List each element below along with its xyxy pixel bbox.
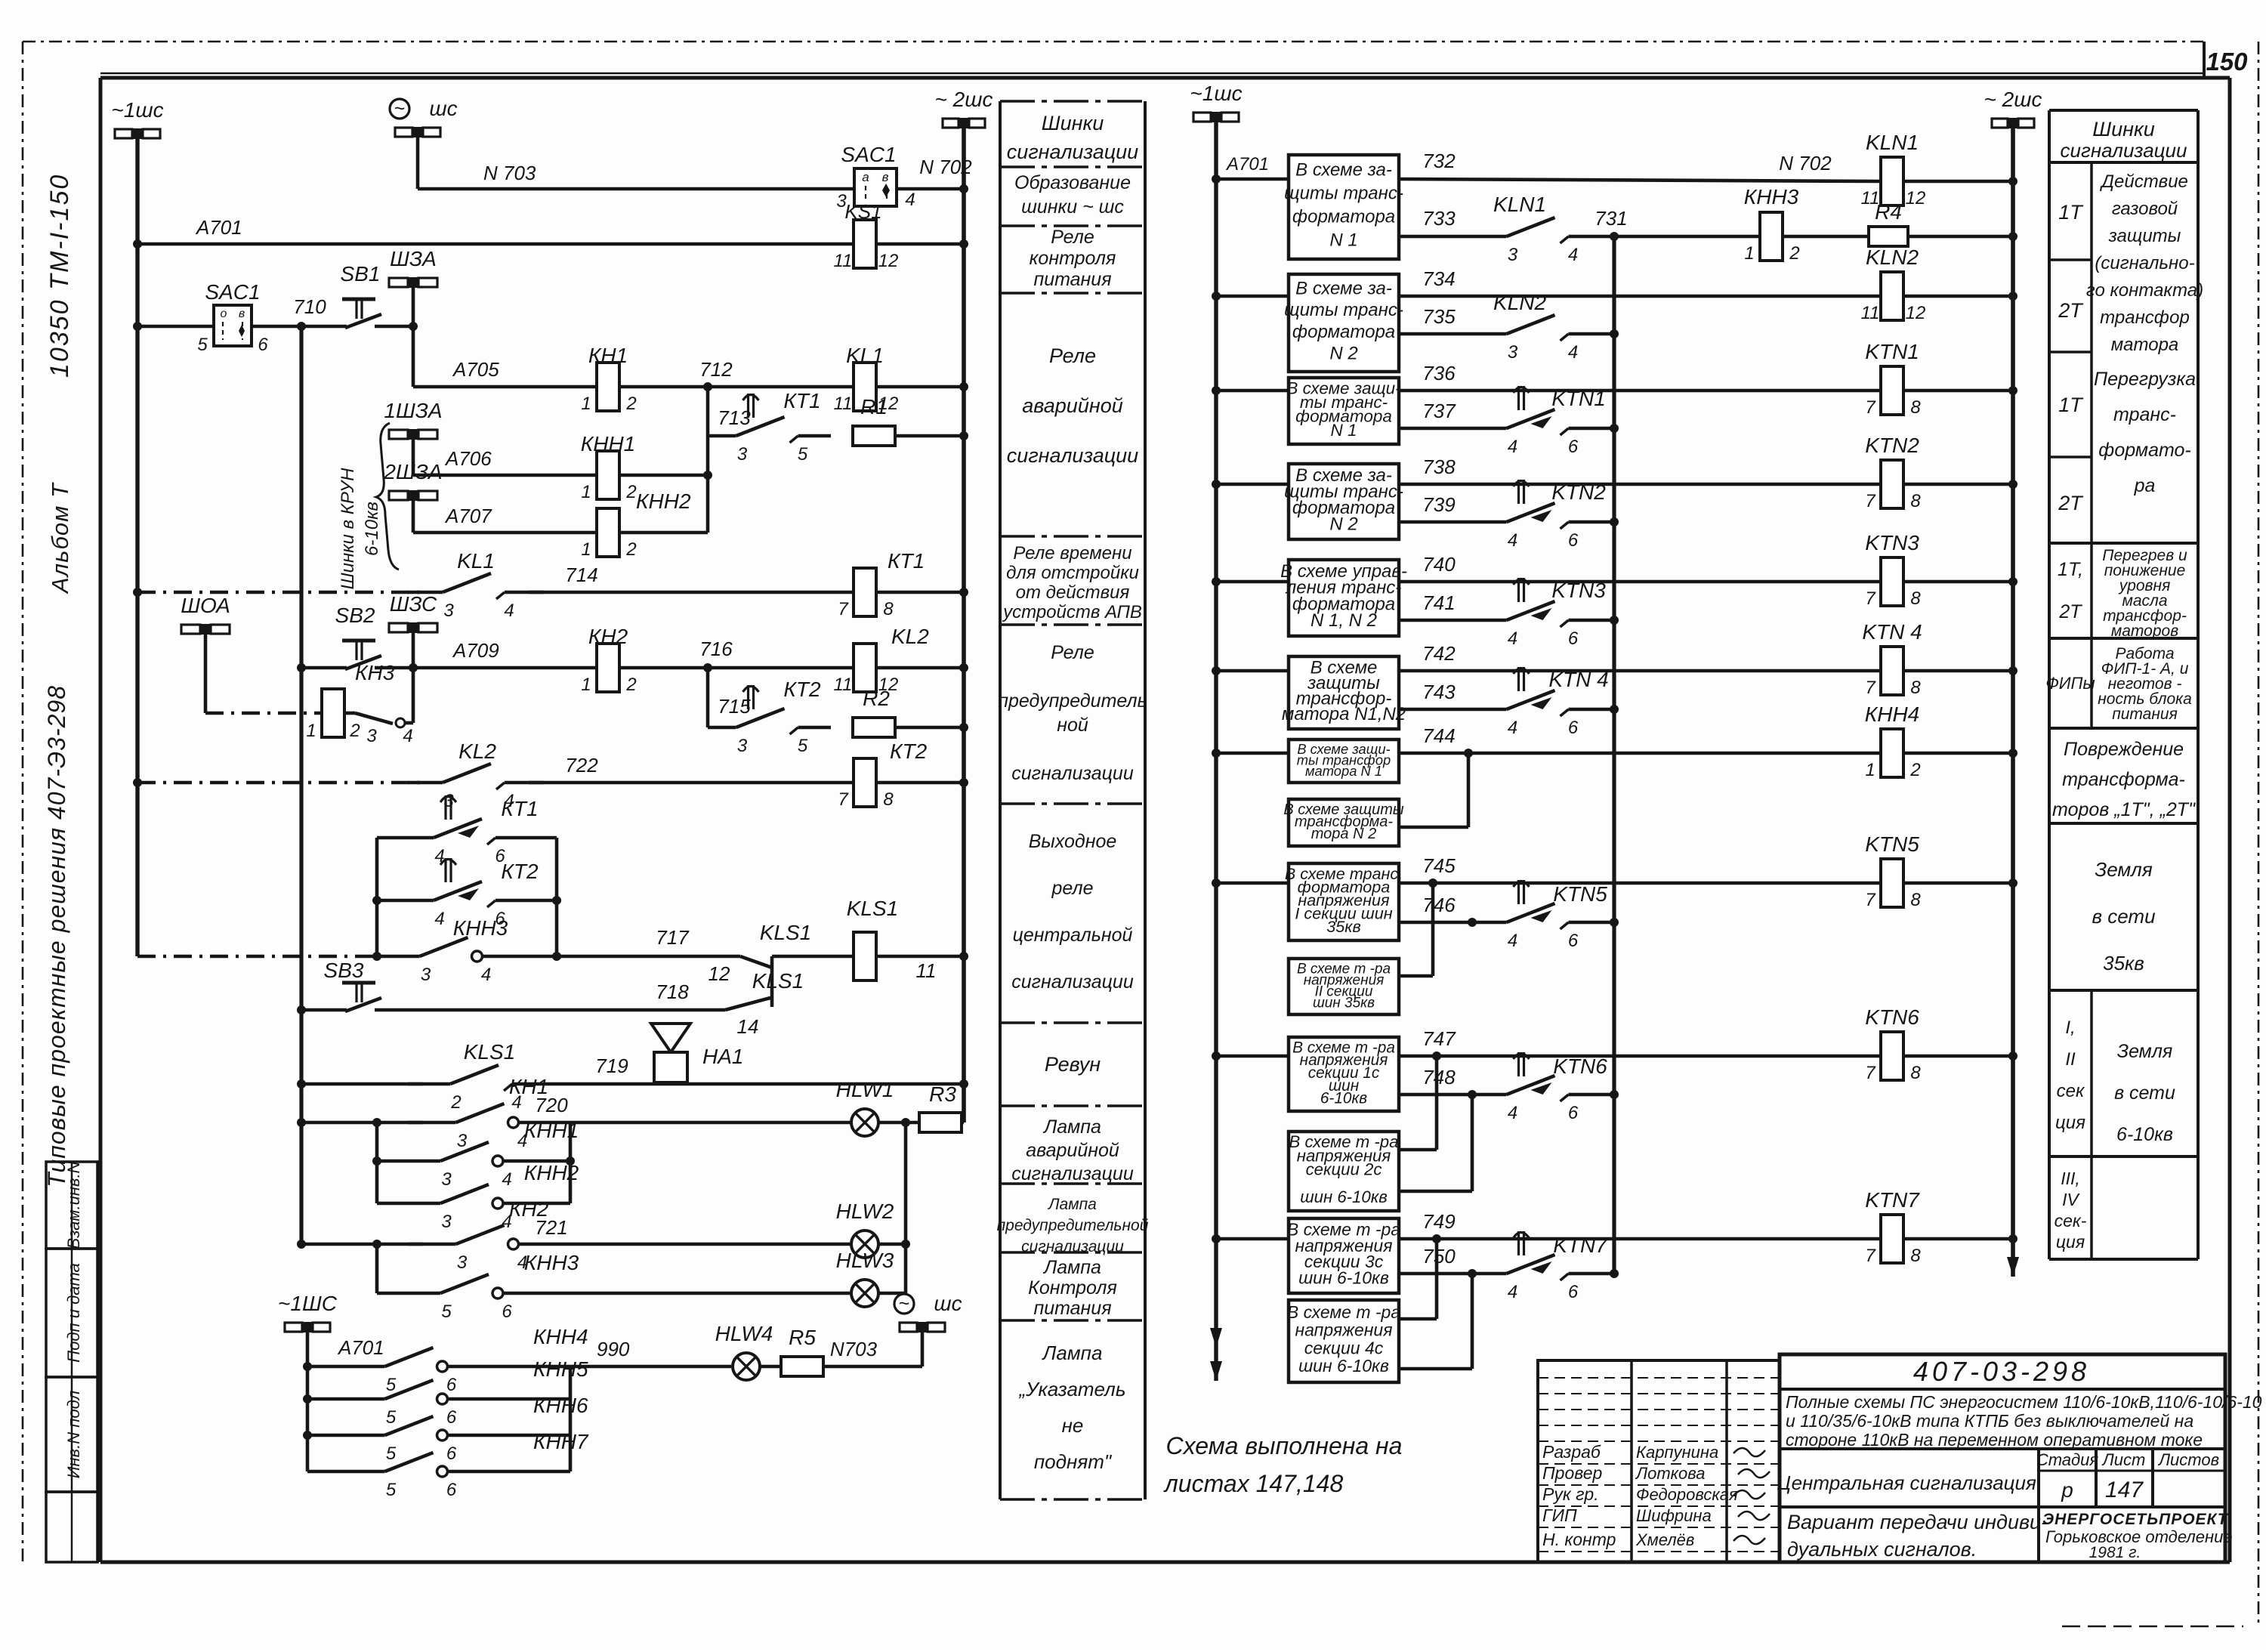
svg-text:2: 2 xyxy=(625,394,636,414)
svg-text:6: 6 xyxy=(1568,628,1579,649)
svg-text:716: 716 xyxy=(699,638,733,660)
svg-text:Рук гр.: Рук гр. xyxy=(1542,1484,1599,1504)
svg-text:питания: питания xyxy=(1033,1298,1111,1319)
svg-text:Шинки: Шинки xyxy=(1042,112,1104,134)
svg-text:3: 3 xyxy=(457,1131,468,1151)
svg-text:4: 4 xyxy=(1568,342,1578,363)
svg-text:сигнализации: сигнализации xyxy=(2061,139,2187,162)
svg-text:R5: R5 xyxy=(789,1326,816,1349)
svg-text:4: 4 xyxy=(1508,530,1517,551)
svg-text:форматора: форматора xyxy=(1292,207,1395,227)
svg-text:6: 6 xyxy=(1568,718,1579,738)
svg-text:1: 1 xyxy=(306,721,316,741)
svg-text:ра: ра xyxy=(2134,475,2156,496)
svg-text:о: о xyxy=(221,307,227,320)
svg-text:ШЗС: ШЗС xyxy=(390,592,437,616)
svg-text:3: 3 xyxy=(457,1252,468,1273)
svg-text:КНН2: КНН2 xyxy=(636,489,691,513)
svg-text:го контакта): го контакта) xyxy=(2086,280,2203,301)
svg-text:Взам.инв.N: Взам.инв.N xyxy=(64,1161,83,1249)
svg-text:Лист: Лист xyxy=(2101,1450,2146,1469)
svg-text:746: 746 xyxy=(1422,894,1456,916)
svg-text:1ШЗА: 1ШЗА xyxy=(384,399,442,422)
svg-text:734: 734 xyxy=(1422,267,1455,290)
svg-text:контроля: контроля xyxy=(1030,248,1116,269)
svg-text:3: 3 xyxy=(421,965,431,985)
svg-text:2: 2 xyxy=(450,1092,461,1113)
svg-text:N703: N703 xyxy=(830,1338,878,1360)
svg-text:сигнализации: сигнализации xyxy=(1007,140,1138,163)
svg-text:маторов: маторов xyxy=(2111,622,2178,640)
svg-text:6: 6 xyxy=(446,1407,457,1428)
svg-text:КНН3: КНН3 xyxy=(1744,185,1799,208)
svg-text:в: в xyxy=(882,170,889,184)
svg-text:739: 739 xyxy=(1422,493,1455,516)
svg-text:N 702: N 702 xyxy=(919,156,972,178)
svg-text:Повреждение: Повреждение xyxy=(2064,739,2184,760)
svg-text:сигнализации: сигнализации xyxy=(1007,444,1138,467)
svg-text:Шинки в КРУН: Шинки в КРУН xyxy=(338,468,358,590)
svg-text:5: 5 xyxy=(386,1480,397,1500)
svg-text:сигнализации: сигнализации xyxy=(1011,971,1134,993)
svg-text:Земля: Земля xyxy=(2117,1041,2173,1062)
svg-text:KLN1: KLN1 xyxy=(1866,131,1919,154)
svg-text:2Т: 2Т xyxy=(2058,299,2084,322)
svg-text:1: 1 xyxy=(1865,760,1875,780)
svg-text:Схема выполнена на: Схема выполнена на xyxy=(1166,1432,1403,1459)
svg-text:~1шс: ~1шс xyxy=(1190,82,1242,105)
svg-text:ЭНЕРГОСЕТЬПРОЕКТ: ЭНЕРГОСЕТЬПРОЕКТ xyxy=(2042,1511,2229,1528)
svg-text:2: 2 xyxy=(1909,760,1920,780)
svg-text:сигнализации: сигнализации xyxy=(1011,763,1134,784)
svg-text:Ревун: Ревун xyxy=(1045,1053,1101,1076)
svg-text:В схеме за-: В схеме за- xyxy=(1295,160,1392,181)
svg-text:Лампа: Лампа xyxy=(1047,1196,1097,1213)
svg-text:731: 731 xyxy=(1595,207,1627,230)
svg-text:721: 721 xyxy=(535,1216,567,1239)
svg-text:КНН7: КНН7 xyxy=(533,1430,589,1453)
svg-text:~1ШС: ~1ШС xyxy=(278,1292,338,1315)
svg-text:и 110/35/6-10кВ типа КТПБ без: и 110/35/6-10кВ типа КТПБ без выключател… xyxy=(1786,1411,2193,1431)
svg-text:712: 712 xyxy=(699,358,733,381)
svg-text:R3: R3 xyxy=(929,1082,956,1106)
svg-text:КТ2: КТ2 xyxy=(501,860,539,883)
svg-text:тора N 2: тора N 2 xyxy=(1311,826,1376,842)
svg-text:KLN2: KLN2 xyxy=(1493,291,1546,314)
svg-text:предупредитель: предупредитель xyxy=(998,690,1147,712)
svg-text:2Т: 2Т xyxy=(2058,492,2084,514)
svg-text:749: 749 xyxy=(1422,1210,1455,1233)
svg-text:747: 747 xyxy=(1422,1027,1456,1050)
svg-text:Реле: Реле xyxy=(1051,642,1094,663)
svg-text:KTN6: KTN6 xyxy=(1553,1055,1607,1078)
svg-text:735: 735 xyxy=(1422,305,1456,328)
svg-text:секции 4с: секции 4с xyxy=(1304,1338,1384,1357)
svg-text:КНН3: КНН3 xyxy=(453,916,508,940)
svg-text:ной: ной xyxy=(1057,715,1088,736)
svg-text:3: 3 xyxy=(1508,245,1518,265)
svg-text:защиты: защиты xyxy=(2108,226,2181,246)
svg-text:N 2: N 2 xyxy=(1329,344,1357,364)
svg-text:~ 2шс: ~ 2шс xyxy=(1984,88,2042,111)
svg-text:KL1: KL1 xyxy=(846,344,884,367)
svg-text:N 2: N 2 xyxy=(1329,514,1357,534)
svg-text:742: 742 xyxy=(1422,642,1456,665)
svg-text:Центральная сигнализация: Центральная сигнализация xyxy=(1777,1471,2036,1494)
svg-text:питания: питания xyxy=(2112,706,2178,723)
svg-text:733: 733 xyxy=(1422,207,1456,230)
svg-text:дуальных сигналов.: дуальных сигналов. xyxy=(1787,1538,1977,1561)
svg-text:Выходное: Выходное xyxy=(1029,831,1117,852)
svg-text:сек: сек xyxy=(2057,1081,2085,1101)
svg-text:2: 2 xyxy=(1789,243,1799,264)
svg-text:шс: шс xyxy=(934,1292,962,1315)
svg-text:транс-: транс- xyxy=(2113,404,2176,425)
svg-text:KLS1: KLS1 xyxy=(760,921,812,944)
svg-text:КНН1: КНН1 xyxy=(581,432,636,455)
svg-text:R1: R1 xyxy=(860,395,888,418)
svg-text:щиты транс-: щиты транс- xyxy=(1284,300,1403,320)
svg-text:Контроля: Контроля xyxy=(1028,1277,1117,1298)
svg-text:ШОА: ШОА xyxy=(181,594,230,617)
svg-text:KTN1: KTN1 xyxy=(1551,387,1606,410)
svg-text:N 1: N 1 xyxy=(1330,421,1357,440)
svg-text:от действия: от действия xyxy=(1016,582,1130,603)
svg-text:I,: I, xyxy=(2065,1017,2075,1038)
svg-text:4: 4 xyxy=(403,726,412,746)
svg-text:4: 4 xyxy=(1508,1282,1517,1302)
svg-text:35кв: 35кв xyxy=(2103,952,2144,974)
svg-text:14: 14 xyxy=(737,1015,759,1038)
svg-text:718: 718 xyxy=(656,980,689,1003)
svg-text:3: 3 xyxy=(737,444,748,465)
svg-text:736: 736 xyxy=(1422,362,1456,384)
svg-text:5: 5 xyxy=(386,1444,397,1464)
svg-text:1Т: 1Т xyxy=(2058,394,2084,416)
svg-text:8: 8 xyxy=(1910,588,1921,609)
svg-text:Подп и дата: Подп и дата xyxy=(64,1263,83,1363)
svg-text:6: 6 xyxy=(502,1302,512,1322)
svg-text:6: 6 xyxy=(446,1375,457,1395)
svg-text:Н. контр: Н. контр xyxy=(1542,1530,1616,1549)
svg-text:35кв: 35кв xyxy=(1326,917,1361,936)
svg-text:6: 6 xyxy=(1568,931,1579,951)
svg-text:шин 6-10кв: шин 6-10кв xyxy=(1298,1268,1389,1287)
svg-text:7: 7 xyxy=(1865,678,1876,698)
svg-text:7: 7 xyxy=(838,599,849,619)
svg-text:Шинки: Шинки xyxy=(2092,118,2155,140)
svg-text:форматора: форматора xyxy=(1292,322,1395,342)
svg-text:КТ1: КТ1 xyxy=(501,797,538,820)
svg-text:Стадия: Стадия xyxy=(2036,1450,2099,1469)
svg-text:Перегрузка: Перегрузка xyxy=(2094,369,2196,390)
svg-text:8: 8 xyxy=(883,599,894,619)
svg-text:1Т,: 1Т, xyxy=(2058,559,2083,580)
svg-text:6-10кв: 6-10кв xyxy=(2116,1124,2173,1145)
svg-text:7: 7 xyxy=(1865,491,1876,511)
svg-text:матора: матора xyxy=(2111,335,2179,355)
svg-text:12: 12 xyxy=(1906,188,1926,208)
svg-text:Образование: Образование xyxy=(1014,172,1131,193)
svg-text:8: 8 xyxy=(1910,1063,1921,1083)
svg-text:2: 2 xyxy=(625,482,636,502)
svg-text:4: 4 xyxy=(504,601,514,621)
svg-text:трансфор: трансфор xyxy=(2100,307,2190,328)
svg-text:листах 147,148: листах 147,148 xyxy=(1163,1470,1344,1497)
svg-text:Реле: Реле xyxy=(1049,344,1096,367)
svg-text:4: 4 xyxy=(1508,437,1517,457)
svg-text:А707: А707 xyxy=(444,505,492,527)
svg-text:2ШЗА: 2ШЗА xyxy=(383,460,442,483)
svg-text:KTN1: KTN1 xyxy=(1865,340,1919,363)
svg-text:6: 6 xyxy=(258,335,268,355)
svg-text:1Т: 1Т xyxy=(2058,201,2084,224)
svg-text:Провер: Провер xyxy=(1542,1463,1603,1483)
svg-text:предупредительной: предупредительной xyxy=(997,1217,1149,1234)
svg-text:КНН1: КНН1 xyxy=(524,1119,579,1142)
svg-text:KTN2: KTN2 xyxy=(1551,480,1606,504)
svg-text:Лампа: Лампа xyxy=(1042,1342,1103,1364)
svg-text:KTN5: KTN5 xyxy=(1553,882,1607,906)
svg-text:Типовые проектные решения: Типовые проектные решения 407-Э3-298 xyxy=(43,685,70,1187)
svg-text:8: 8 xyxy=(1910,491,1921,511)
svg-text:KTN3: KTN3 xyxy=(1865,531,1919,554)
svg-text:НА1: НА1 xyxy=(702,1045,743,1068)
svg-text:формато-: формато- xyxy=(2098,440,2191,461)
svg-text:6: 6 xyxy=(446,1444,457,1464)
svg-text:ГИП: ГИП xyxy=(1542,1505,1577,1525)
svg-text:750: 750 xyxy=(1422,1245,1456,1268)
svg-text:ФИПы: ФИПы xyxy=(2045,674,2095,693)
svg-text:Альбом Т: Альбом Т xyxy=(47,482,73,594)
svg-text:8: 8 xyxy=(883,789,894,810)
svg-text:744: 744 xyxy=(1422,724,1455,747)
svg-text:шин 6-10кв: шин 6-10кв xyxy=(1300,1187,1388,1206)
svg-text:А701: А701 xyxy=(1225,154,1269,174)
svg-text:4: 4 xyxy=(1508,1103,1517,1123)
svg-text:КНН6: КНН6 xyxy=(533,1394,588,1417)
svg-text:ция: ция xyxy=(2055,1113,2085,1133)
svg-text:5: 5 xyxy=(386,1407,397,1428)
svg-text:II: II xyxy=(2065,1049,2076,1070)
svg-text:7: 7 xyxy=(1865,397,1876,418)
svg-text:Лампа: Лампа xyxy=(1042,1116,1101,1138)
svg-text:1: 1 xyxy=(581,482,591,502)
svg-text:KTN 4: KTN 4 xyxy=(1862,620,1922,644)
svg-text:КНН5: КНН5 xyxy=(533,1357,588,1381)
svg-text:11: 11 xyxy=(916,959,937,982)
svg-text:11: 11 xyxy=(834,675,853,695)
svg-text:в сети: в сети xyxy=(2092,905,2155,928)
svg-text:4: 4 xyxy=(434,909,444,929)
svg-text:4: 4 xyxy=(1508,931,1517,951)
svg-text:КТ2: КТ2 xyxy=(890,740,928,763)
svg-text:12: 12 xyxy=(1906,303,1926,323)
svg-text:КНН4: КНН4 xyxy=(1865,702,1920,726)
svg-text:737: 737 xyxy=(1422,400,1456,422)
svg-text:сигнализации: сигнализации xyxy=(1021,1238,1124,1255)
svg-text:Реле времени: Реле времени xyxy=(1013,543,1131,564)
svg-text:6: 6 xyxy=(1568,1103,1579,1123)
svg-text:КН3: КН3 xyxy=(355,661,395,684)
svg-text:7: 7 xyxy=(1865,890,1876,910)
svg-text:8: 8 xyxy=(1910,890,1921,910)
svg-text:а: а xyxy=(862,170,869,184)
svg-text:KTN3: KTN3 xyxy=(1551,579,1606,602)
svg-text:6: 6 xyxy=(446,1480,457,1500)
svg-text:в сети: в сети xyxy=(2114,1082,2175,1104)
svg-text:KLN1: KLN1 xyxy=(1493,193,1546,216)
svg-text:8: 8 xyxy=(1910,678,1921,698)
svg-text:питания: питания xyxy=(1033,269,1111,290)
svg-text:990: 990 xyxy=(597,1338,630,1360)
svg-text:3: 3 xyxy=(443,601,454,621)
svg-text:секции 2с: секции 2с xyxy=(1306,1160,1382,1179)
svg-text:2Т: 2Т xyxy=(2058,601,2082,622)
svg-text:3: 3 xyxy=(366,726,377,746)
svg-text:6-10кв: 6-10кв xyxy=(362,502,382,556)
svg-text:4: 4 xyxy=(502,1169,511,1190)
svg-text:(сигнально-: (сигнально- xyxy=(2095,253,2194,273)
svg-text:741: 741 xyxy=(1422,591,1455,614)
svg-text:6: 6 xyxy=(1568,530,1579,551)
svg-text:КТ1: КТ1 xyxy=(888,549,925,573)
svg-text:7: 7 xyxy=(838,789,849,810)
svg-text:в: в xyxy=(239,307,245,320)
svg-text:1: 1 xyxy=(581,675,591,695)
svg-text:KLS1: KLS1 xyxy=(752,969,804,993)
svg-text:4: 4 xyxy=(905,190,915,210)
svg-text:4: 4 xyxy=(1508,628,1517,649)
svg-text:407-03-298: 407-03-298 xyxy=(1913,1356,2090,1387)
svg-text:КНН3: КНН3 xyxy=(524,1251,579,1274)
svg-text:аварийной: аварийной xyxy=(1026,1140,1119,1161)
svg-text:745: 745 xyxy=(1422,854,1456,877)
svg-text:4: 4 xyxy=(1568,245,1578,265)
svg-text:717: 717 xyxy=(656,926,690,949)
svg-text:В схеме за-: В схеме за- xyxy=(1295,278,1392,298)
svg-text:напряжения: напряжения xyxy=(1295,1320,1392,1340)
svg-text:поднят": поднят" xyxy=(1034,1450,1113,1473)
svg-text:SB2: SB2 xyxy=(335,604,375,627)
svg-text:720: 720 xyxy=(535,1094,568,1116)
svg-text:Лампа: Лампа xyxy=(1042,1257,1101,1278)
svg-text:4: 4 xyxy=(434,846,444,866)
svg-text:6: 6 xyxy=(1568,437,1579,457)
svg-text:2: 2 xyxy=(625,675,636,695)
svg-text:шин 6-10кв: шин 6-10кв xyxy=(1298,1356,1389,1376)
svg-text:150: 150 xyxy=(2206,48,2248,76)
svg-text:шин 35кв: шин 35кв xyxy=(1313,996,1375,1011)
svg-text:11: 11 xyxy=(834,251,853,271)
svg-text:3: 3 xyxy=(737,736,748,756)
svg-text:сек-: сек- xyxy=(2055,1211,2087,1231)
svg-text:738: 738 xyxy=(1422,455,1456,478)
svg-text:матора N 1: матора N 1 xyxy=(1305,763,1382,779)
svg-text:5: 5 xyxy=(441,1302,452,1322)
svg-text:шс: шс xyxy=(429,97,457,120)
svg-text:Земля: Земля xyxy=(2095,858,2153,881)
svg-text:центральной: центральной xyxy=(1013,925,1133,946)
svg-text:732: 732 xyxy=(1422,150,1456,172)
svg-text:Инв.N подл: Инв.N подл xyxy=(64,1391,83,1478)
svg-text:719: 719 xyxy=(595,1055,628,1077)
svg-text:реле: реле xyxy=(1051,878,1094,899)
svg-text:N 1: N 1 xyxy=(1329,230,1357,251)
svg-text:1981 г.: 1981 г. xyxy=(2089,1544,2141,1561)
svg-text:KTN7: KTN7 xyxy=(1865,1188,1920,1212)
svg-text:HLW1: HLW1 xyxy=(836,1078,894,1101)
svg-text:KTN5: KTN5 xyxy=(1865,832,1919,856)
svg-text:KL2: KL2 xyxy=(891,625,929,648)
svg-text:А709: А709 xyxy=(452,639,499,662)
svg-text:7: 7 xyxy=(1865,1063,1876,1083)
svg-text:Реле: Реле xyxy=(1051,227,1094,248)
svg-text:А706: А706 xyxy=(444,447,492,470)
svg-text:11: 11 xyxy=(1861,303,1880,323)
svg-text:12: 12 xyxy=(709,962,730,985)
svg-text:Вариант передачи индиви-: Вариант передачи индиви- xyxy=(1787,1511,2048,1533)
svg-text:7: 7 xyxy=(1865,1246,1876,1266)
svg-text:торов „1Т", „2Т": торов „1Т", „2Т" xyxy=(2052,799,2196,820)
svg-text:Разраб: Разраб xyxy=(1542,1442,1601,1462)
svg-text:А705: А705 xyxy=(452,358,499,381)
svg-text:щиты транс-: щиты транс- xyxy=(1284,184,1403,204)
svg-text:КН2: КН2 xyxy=(588,625,628,648)
svg-text:KLS1: KLS1 xyxy=(464,1040,516,1064)
svg-text:~: ~ xyxy=(394,98,406,119)
svg-text:ция: ция xyxy=(2056,1232,2085,1252)
svg-text:HLW4: HLW4 xyxy=(715,1322,773,1345)
svg-text:7: 7 xyxy=(1865,588,1876,609)
svg-text:ШЗА: ШЗА xyxy=(390,247,437,270)
svg-text:Полные схемы ПС энергосистем 1: Полные схемы ПС энергосистем 110/6-10кВ,… xyxy=(1786,1392,2262,1412)
svg-text:147: 147 xyxy=(2105,1478,2144,1502)
svg-text:1: 1 xyxy=(1744,243,1754,264)
svg-text:KL1: KL1 xyxy=(457,549,495,573)
svg-text:Листов: Листов xyxy=(2157,1450,2219,1469)
svg-text:KLS1: KLS1 xyxy=(847,897,899,920)
svg-text:KLN2: KLN2 xyxy=(1866,245,1919,269)
svg-text:сигнализации: сигнализации xyxy=(1011,1163,1134,1184)
svg-text:~: ~ xyxy=(899,1293,910,1314)
svg-text:КНН4: КНН4 xyxy=(533,1325,588,1348)
svg-text:11: 11 xyxy=(834,394,853,414)
svg-text:SB3: SB3 xyxy=(324,959,364,982)
svg-text:HLW2: HLW2 xyxy=(836,1200,894,1223)
svg-text:2: 2 xyxy=(349,721,360,741)
svg-text:трансформа-: трансформа- xyxy=(2062,769,2185,790)
svg-text:10350 ТМ-I-150: 10350 ТМ-I-150 xyxy=(45,174,74,378)
svg-text:Карпунина: Карпунина xyxy=(1636,1443,1718,1462)
svg-text:3: 3 xyxy=(441,1169,452,1190)
svg-text:SAC1: SAC1 xyxy=(841,143,896,166)
svg-text:1: 1 xyxy=(581,539,591,560)
svg-text:„Указатель: „Указатель xyxy=(1019,1378,1126,1400)
svg-text:КТ1: КТ1 xyxy=(783,389,820,412)
svg-text:А701: А701 xyxy=(195,216,242,239)
svg-text:шинки ~ шс: шинки ~ шс xyxy=(1021,196,1124,218)
svg-text:722: 722 xyxy=(565,754,598,777)
svg-text:4: 4 xyxy=(1508,718,1517,738)
svg-text:~ 2шс: ~ 2шс xyxy=(935,88,993,111)
svg-text:4: 4 xyxy=(481,965,491,985)
svg-text:III,: III, xyxy=(2061,1169,2080,1188)
svg-text:для отстройки: для отстройки xyxy=(1006,563,1139,583)
svg-text:R4: R4 xyxy=(1875,200,1902,224)
svg-text:р: р xyxy=(2061,1478,2073,1502)
svg-text:газовой: газовой xyxy=(2112,199,2178,219)
